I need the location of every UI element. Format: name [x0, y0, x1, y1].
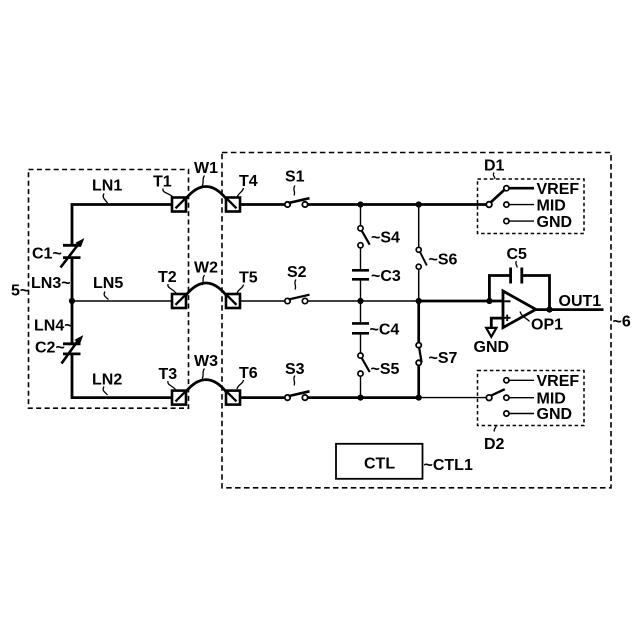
label T5 [237, 270, 258, 294]
label GND (ground) [474, 339, 510, 356]
capacitor C4 [352, 301, 369, 353]
wire top row S1 to D1 [308, 203, 487, 206]
capacitor C1 (variable) [61, 238, 85, 267]
net label VREF (D1) [537, 181, 580, 198]
svg-text:~S7: ~S7 [429, 350, 458, 367]
node bottom row x=418.7 [416, 395, 422, 401]
wire S6 to middle row [418, 269, 420, 301]
selector switch D2 [478, 371, 585, 426]
wire LN3 (trunk between C1 and LN5 junction) [71, 258, 74, 302]
svg-text:5~: 5~ [11, 283, 29, 300]
label C1 [32, 246, 62, 263]
wire bottom row T6 to S3 [240, 396, 285, 399]
node middle row x=418.7 [416, 298, 422, 304]
ground [486, 328, 496, 337]
label T1 [153, 174, 173, 198]
node LN5 junction [69, 298, 75, 304]
svg-text:~6: ~6 [613, 313, 631, 330]
node middle row x=360.5 [357, 298, 363, 304]
svg-text:~C3: ~C3 [371, 268, 401, 285]
label S1 [285, 169, 305, 196]
svg-text:S2: S2 [287, 264, 307, 281]
net label MID (D1) [537, 198, 566, 215]
svg-text:S1: S1 [285, 169, 305, 186]
svg-text:W3: W3 [194, 353, 218, 370]
svg-text:OUT1: OUT1 [559, 293, 602, 310]
svg-text:C1~: C1~ [32, 246, 62, 263]
label LN5 [93, 275, 123, 300]
svg-text:LN2: LN2 [92, 372, 122, 389]
label W1 [194, 160, 218, 186]
wire LN5 [72, 300, 172, 302]
svg-text:T5: T5 [239, 270, 258, 287]
label C3 [371, 268, 401, 285]
capacitor C3 [352, 270, 369, 279]
svg-text:D2: D2 [484, 436, 505, 453]
winding W1 [186, 187, 226, 199]
svg-text:W1: W1 [194, 160, 218, 177]
node feedback tap [486, 298, 492, 304]
svg-text:GND: GND [537, 214, 573, 231]
capacitor C5 [511, 268, 522, 284]
terminal T4 [226, 198, 240, 212]
svg-text:T6: T6 [239, 365, 258, 382]
net label VREF (D2) [537, 373, 580, 390]
label D2 [484, 426, 505, 454]
wire op-amp plus input to ground [491, 318, 503, 328]
label C5 [507, 246, 528, 268]
svg-text:C5: C5 [507, 246, 528, 263]
label 5 [11, 283, 29, 300]
svg-text:~S4: ~S4 [371, 230, 400, 247]
label C4 [370, 322, 400, 339]
terminal T3 [172, 391, 186, 405]
label W3 [194, 353, 218, 379]
svg-text:LN3~: LN3~ [31, 275, 71, 292]
switch S6 [416, 247, 427, 269]
svg-text:~S5: ~S5 [371, 361, 400, 378]
switch S1 [285, 198, 310, 207]
label CTL1 [424, 457, 473, 474]
label S5 [371, 361, 400, 378]
label S7 [429, 350, 458, 367]
svg-text:T2: T2 [158, 269, 177, 286]
svg-text:C2~: C2~ [35, 340, 65, 357]
op-amp OP1 [503, 291, 536, 328]
wire feedback loop [489, 276, 549, 309]
node output [546, 307, 552, 313]
wire S5 to bottom row [360, 376, 362, 397]
wire LN2 [72, 354, 172, 398]
svg-text:W2: W2 [194, 260, 218, 277]
wire S7 branch top [417, 301, 420, 343]
terminal T1 [172, 198, 186, 212]
net label GND (D1) [537, 214, 573, 231]
wire S4 to C3 [360, 248, 362, 269]
svg-text:LN1: LN1 [92, 178, 122, 195]
label D1 [484, 158, 505, 180]
label LN1 [92, 178, 122, 204]
label 6 [613, 313, 631, 330]
terminal T5 [226, 294, 240, 308]
node bottom row x=360.5 [357, 395, 363, 401]
svg-text:CTL: CTL [364, 456, 395, 473]
label OUT1 [559, 293, 602, 310]
svg-text:MID: MID [537, 390, 566, 407]
net label MID (D2) [537, 390, 566, 407]
wire S7 branch bottom [417, 365, 420, 397]
wire C3 to middle row [360, 281, 362, 301]
dashed box 5 [29, 170, 189, 409]
controller CTL [336, 444, 423, 479]
wire LN4 (trunk between junction and C2) [71, 301, 74, 344]
net label GND (D2) [537, 406, 573, 423]
switch S2 [285, 295, 310, 304]
terminal T6 [226, 391, 240, 405]
switch S4 [358, 226, 370, 248]
svg-text:LN4~: LN4~ [34, 318, 74, 335]
wire middle row to op-amp [419, 300, 503, 303]
label OP1 [520, 312, 563, 334]
wire branch to S4 [360, 205, 362, 226]
node top row x=418.7 [416, 201, 422, 207]
switch S3 [285, 391, 310, 400]
label T4 [237, 173, 258, 198]
wire bottom row S3 to S7 branch [308, 396, 419, 399]
node top row x=360.5 [357, 201, 363, 207]
capacitor C2 (variable) [62, 335, 84, 363]
switch S5 [358, 353, 370, 376]
svg-text:D1: D1 [484, 158, 505, 175]
dashed box 6 [222, 153, 611, 488]
wire branch S6 [418, 205, 420, 248]
svg-text:T4: T4 [239, 173, 258, 190]
svg-text:~C4: ~C4 [370, 322, 400, 339]
wire middle row T5 to S2 [240, 300, 285, 302]
label S4 [371, 230, 400, 247]
label LN2 [92, 372, 122, 396]
label LN3 [31, 275, 71, 292]
winding W2 [186, 283, 226, 295]
svg-text:GND: GND [474, 339, 510, 356]
wire middle row S2 to S7 branch [308, 300, 419, 302]
wire bottom row to D2 [419, 397, 487, 399]
label T6 [237, 365, 258, 389]
selector switch D1 [478, 179, 585, 234]
winding W3 [186, 380, 226, 392]
wire LN1 [72, 205, 172, 246]
svg-text:~S6: ~S6 [429, 252, 458, 269]
switch S7 [416, 343, 422, 366]
svg-text:VREF: VREF [537, 181, 580, 198]
terminal T2 [172, 294, 186, 308]
label S6 [429, 252, 458, 269]
label T2 [158, 269, 177, 293]
label LN4 [34, 318, 74, 335]
svg-text:LN5: LN5 [93, 275, 123, 292]
svg-text:GND: GND [537, 406, 573, 423]
label S2 [287, 264, 307, 290]
label W2 [194, 260, 218, 286]
label C2 [35, 340, 65, 357]
svg-text:~CTL1: ~CTL1 [424, 457, 473, 474]
label T3 [159, 366, 178, 390]
label S3 [285, 361, 305, 386]
wire top row T4 to S1 [240, 203, 285, 206]
svg-text:VREF: VREF [537, 373, 580, 390]
svg-text:OP1: OP1 [531, 317, 563, 334]
svg-text:T3: T3 [159, 366, 178, 383]
wire output OUT1 [535, 308, 604, 311]
svg-text:MID: MID [537, 198, 566, 215]
svg-text:T1: T1 [153, 174, 172, 191]
